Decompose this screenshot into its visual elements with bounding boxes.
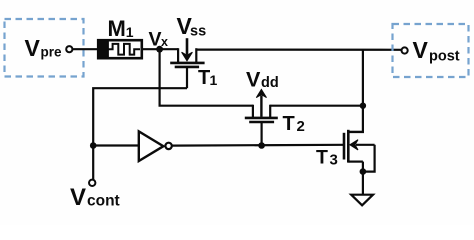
wire M1 to node Vx [142,48,160,50]
svg-text:2: 2 [297,118,305,135]
node T3 source/body tie [360,168,367,175]
label T3 [316,147,338,169]
label T2 [283,113,305,135]
Vss arrow into T1 [182,38,193,61]
wire top rail down to T3 drain [348,50,363,132]
label M1 [108,16,134,41]
svg-text:M: M [108,16,126,41]
wire T1 drain to Vpost (top rail) [196,48,401,50]
svg-text:x: x [161,35,168,49]
svg-text:dd: dd [261,75,279,91]
Vpre dashed terminal box [5,19,84,77]
node T2 gate junction [258,142,265,149]
wire Vcont junction to inverter input [93,144,139,146]
wire Vx to T1 source [160,48,179,50]
label Vx [149,28,169,50]
wire inverter output to T3 gate [172,144,343,147]
memristor M1 [98,40,142,58]
node Vx [156,46,163,53]
inverter U1 [139,131,172,161]
svg-text:ss: ss [190,23,206,39]
wire Vpre to M1 [73,48,99,50]
label Vss [177,13,207,39]
wire T1 gate to Vcont [93,88,187,179]
label Vpost [413,37,460,64]
svg-text:V: V [149,28,162,50]
svg-text:V: V [246,68,261,92]
terminal Vpost [402,47,408,53]
wire T2 drain to junction [270,105,363,107]
transistor T1 [170,48,204,88]
svg-text:T: T [283,113,295,135]
svg-text:1: 1 [210,72,218,88]
svg-text:post: post [429,49,460,65]
Vdd arrow out of T2 [256,89,266,116]
svg-text:T: T [316,147,328,169]
svg-text:1: 1 [126,24,134,40]
svg-text:T: T [198,67,210,89]
svg-text:cont: cont [87,193,120,210]
svg-text:V: V [413,37,429,63]
svg-text:3: 3 [330,152,338,169]
terminal Vpre [66,46,72,52]
label Vpre [25,35,63,61]
transistor T2 [245,105,278,146]
svg-text:V: V [70,184,86,211]
svg-text:pre: pre [41,45,63,60]
svg-text:V: V [25,35,41,61]
label Vdd [246,68,279,92]
ground [351,195,373,206]
transistor T3 [344,130,375,195]
node Vcont junction [90,142,97,149]
Vpost dashed terminal box [393,24,469,77]
node T2/T3 drain junction [360,103,366,109]
label T1 [198,67,218,89]
terminal Vcont [89,180,95,186]
wire Vx down and to T2 source [160,49,253,105]
label Vcont [70,184,120,211]
